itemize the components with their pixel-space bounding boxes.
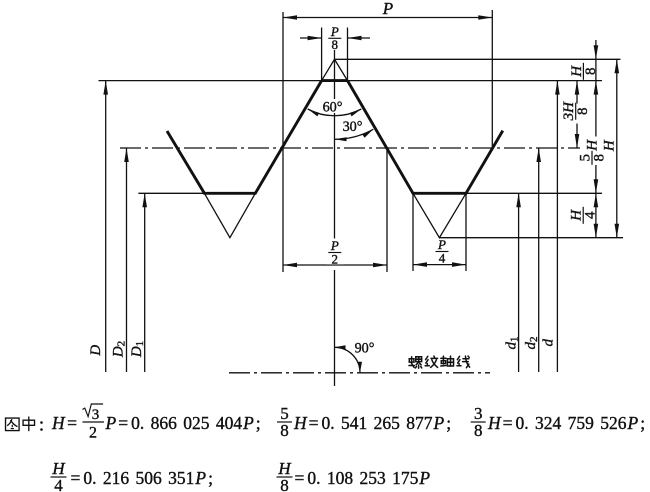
svg-text:8: 8 [583, 68, 599, 76]
svg-text:=0. 108 253 175P: =0. 108 253 175P [295, 468, 431, 488]
svg-text:8: 8 [280, 421, 289, 440]
svg-text:H: H [51, 459, 66, 478]
svg-text:90°: 90° [355, 341, 375, 357]
svg-text:H: H [277, 459, 292, 478]
svg-text:2: 2 [89, 425, 97, 442]
svg-text:8: 8 [474, 421, 483, 440]
svg-text:H=0. 324 759 526P;: H=0. 324 759 526P; [487, 413, 645, 433]
svg-text:2: 2 [332, 251, 339, 266]
svg-text:4: 4 [54, 476, 63, 492]
svg-text:4: 4 [439, 250, 446, 265]
svg-text:3: 3 [92, 407, 100, 423]
svg-text:5: 5 [280, 404, 289, 423]
svg-text:D: D [88, 345, 104, 357]
svg-text:60°: 60° [323, 99, 343, 115]
svg-text:H: H [602, 139, 618, 152]
svg-text:8: 8 [575, 107, 591, 115]
svg-text:P=0. 866 025 404P;: P=0. 866 025 404P; [105, 413, 261, 433]
svg-text:=0. 216 506 351P;: =0. 216 506 351P; [71, 468, 213, 488]
svg-text:H=: H= [51, 413, 77, 433]
svg-text:8: 8 [280, 476, 289, 492]
svg-text:d: d [541, 339, 557, 347]
svg-text:8: 8 [332, 37, 339, 52]
svg-text:30°: 30° [343, 119, 363, 135]
svg-text:P: P [382, 0, 393, 18]
svg-text:8: 8 [592, 154, 608, 162]
svg-text:3: 3 [474, 404, 483, 423]
svg-text:4: 4 [583, 211, 599, 219]
svg-text:H: H [585, 139, 601, 152]
svg-text:H=0. 541 265 877P;: H=0. 541 265 877P; [293, 413, 451, 433]
